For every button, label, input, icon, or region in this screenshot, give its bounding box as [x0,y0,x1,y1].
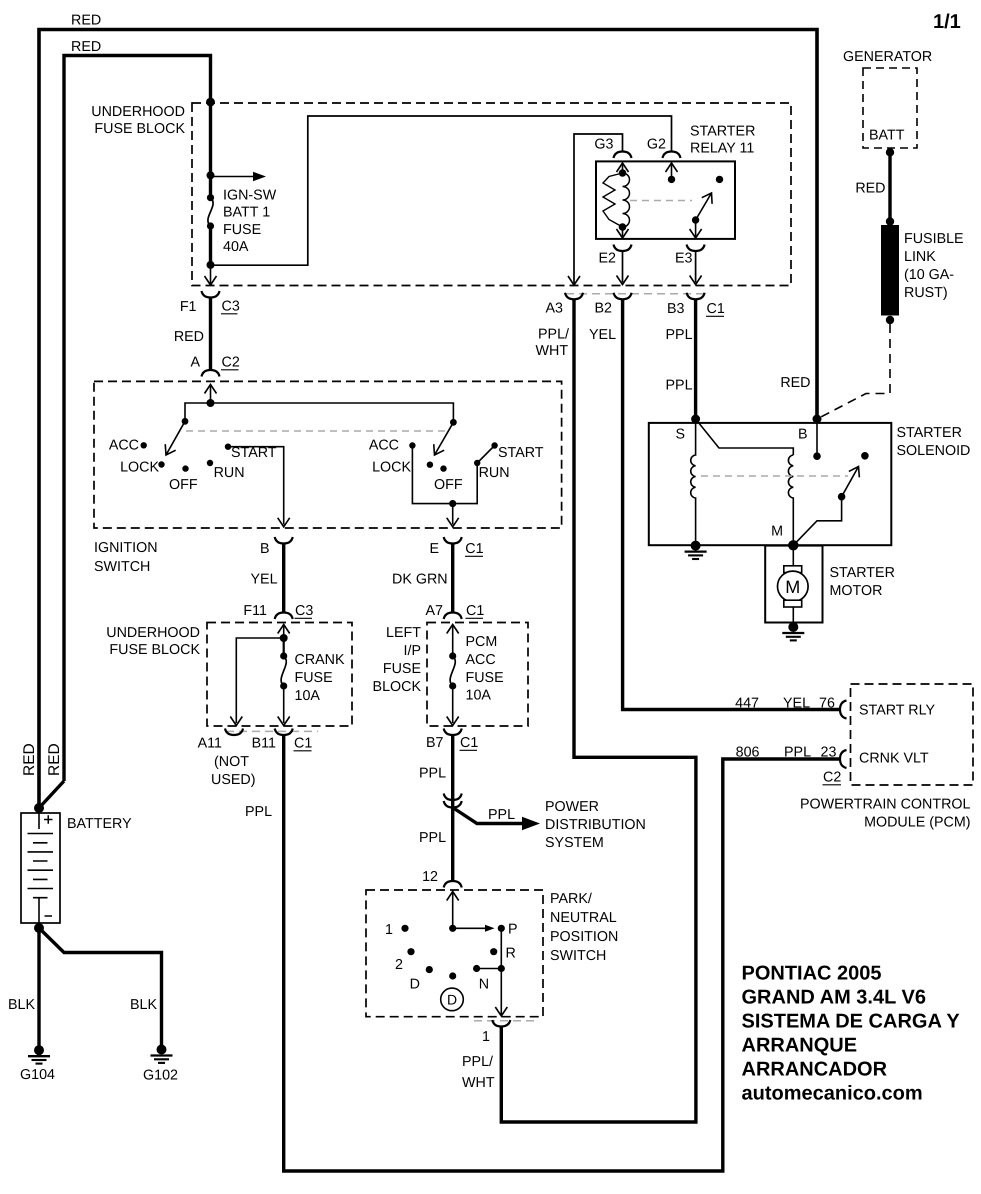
junction node crank fuse [280,634,288,642]
connector F11 C3 [275,613,293,620]
wire left START to B [228,447,290,527]
svg-text:RED: RED [21,743,38,776]
label A7 [426,603,444,619]
svg-text:POSITION: POSITION [550,929,618,945]
page number 1/1 [933,11,961,33]
label G104 [20,1067,55,1083]
svg-text:SYSTEM: SYSTEM [545,835,604,851]
PNP contact R [490,948,497,955]
svg-text:STARTER: STARTER [830,565,895,581]
label CRNK VLT [859,751,929,767]
svg-text:A7: A7 [426,603,444,619]
svg-text:PONTIAC 2005: PONTIAC 2005 [742,963,882,985]
svg-text:PPL: PPL [666,327,693,343]
svg-text:1/1: 1/1 [933,11,961,33]
label FUSIBLE LINK (10 GA- RUST) [904,231,964,301]
battery [21,813,60,923]
svg-text:CRANK: CRANK [295,652,346,668]
label RED at solenoid B [780,375,810,391]
label PPL lower [419,830,446,846]
connector E C1 [444,537,462,544]
svg-text:STARTER: STARTER [897,425,962,441]
svg-text:D: D [447,992,457,1008]
svg-text:FUSIBLE: FUSIBLE [904,231,964,247]
label PPL (B3 upper) [666,327,693,343]
circled D indicator [441,988,464,1011]
label 12 [422,869,438,885]
connector A11 [225,729,243,736]
wire RED F1 to A [209,298,212,370]
label E3 [675,251,693,267]
wire RED second feed (battery to underhood fuse block) [39,56,211,809]
label C1 underlined [465,541,484,557]
label YEL [251,572,278,588]
solenoid switch contact [861,452,869,460]
svg-text:FUSE: FUSE [223,222,261,238]
wire BLK battery to G104 [37,928,40,1046]
svg-text:MODULE (PCM): MODULE (PCM) [864,815,970,831]
svg-text:1: 1 [385,922,393,938]
PNP wiper junction [449,925,456,932]
svg-text:C1: C1 [466,603,484,619]
branch arrow to other circuits [211,172,267,182]
svg-text:C3: C3 [295,603,313,619]
label M [771,524,783,540]
svg-text:USED): USED) [211,772,255,788]
wire B YEL to F11 [282,544,285,613]
label CRANK FUSE 10A [295,652,346,704]
label B7 [426,735,444,751]
svg-text:NEUTRAL: NEUTRAL [550,910,617,926]
fuse IGN-SW BATT 1 FUSE 40A [207,194,214,230]
PNP wiper arrow to P [453,925,495,932]
wire B7 PPL down through inline connector [451,735,454,881]
connector F1 C3 [202,291,220,298]
svg-text:DISTRIBUTION: DISTRIBUTION [545,817,646,833]
svg-text:A11: A11 [198,736,222,752]
wire B11 PPL to PCM CRNK VLT (806) [284,735,840,1171]
ground starter motor [782,622,804,640]
wire B2 YEL to PCM START RLY (447) [623,299,840,709]
starter motor box [765,546,822,623]
label B [798,427,808,443]
solenoid hold winding (left coil) [691,419,696,545]
junction node fuse output [207,261,215,269]
svg-text:LOCK: LOCK [372,460,411,476]
label C2 underlined [221,355,240,371]
label B2 [595,301,613,317]
label 447 [735,696,759,712]
ignition switch dashed box [94,381,562,528]
svg-text:OFF: OFF [434,477,463,493]
branch wire to A11 not used [230,638,283,726]
svg-text:POWER: POWER [545,799,599,815]
label RED second wire [71,39,101,55]
fusible link (10 GA-RUST) [881,225,899,316]
PNP contact N [473,965,480,972]
svg-text:PCM: PCM [466,634,498,650]
label B [260,541,270,557]
connector B7 C1 [444,729,462,736]
svg-text:C1: C1 [460,735,478,751]
svg-text:G2: G2 [647,137,666,153]
svg-text:B2: B2 [595,301,613,317]
label PPL at branch [488,807,515,823]
svg-text:R: R [506,946,516,962]
solenoid switch arm [838,464,864,501]
label STARTER MOTOR [830,565,895,599]
connector A C2 [202,370,220,377]
wire A3 PPL/WHT to park/neutral switch pin 1 [501,299,696,1122]
svg-text:M: M [771,524,783,540]
svg-text:RUN: RUN [479,465,510,481]
label RED [174,329,204,345]
svg-text:B11: B11 [252,736,276,752]
node fusible link top [886,217,894,225]
label S [676,427,686,443]
svg-text:FUSE: FUSE [466,670,504,686]
connector E3 [687,245,705,252]
label PCM ACC FUSE 10A [466,634,504,704]
label LEFT I/P FUSE BLOCK [373,625,422,695]
solenoid switch arm to M terminal [793,497,841,546]
label YEL [589,327,616,343]
underhood fuse block (crank fuse) dashed box [207,623,352,727]
PNP contact 2 [407,948,414,955]
svg-text:E: E [429,541,439,557]
wire right ACC RUN START to E [412,446,494,527]
connector B11 C1 [275,729,293,736]
svg-text:806: 806 [736,745,760,761]
PNP contact P [498,925,505,932]
connector PCM pin 23 [840,750,847,768]
label DK GRN [392,572,448,588]
svg-text:START RLY: START RLY [859,703,935,719]
label P [508,922,518,938]
svg-text:PPL/: PPL/ [538,327,569,343]
park/neutral position switch dashed box [366,890,543,1017]
label PPL [784,745,811,761]
ground G102 [151,1045,173,1063]
node battery positive [34,803,44,813]
svg-text:BLK: BLK [130,997,157,1013]
svg-text:447: 447 [735,696,759,712]
relay pin G3 arrow [617,163,629,173]
svg-text:BATT: BATT [869,128,905,144]
label 76 [819,696,835,712]
svg-text:RUST): RUST) [904,285,948,301]
label POWERTRAIN CONTROL MODULE (PCM) [800,797,971,831]
connector row C1 dashed joining line lower fuse block [226,730,318,732]
PNP contact D [426,966,433,973]
node solenoid S terminal [691,415,700,424]
connector G3 [614,152,632,159]
label YEL [783,696,810,712]
svg-text:automecanico.com: automecanico.com [742,1083,923,1105]
starter solenoid box [649,423,892,545]
label C3 underlined [221,299,240,315]
label F11 [243,603,267,619]
svg-text:C1: C1 [707,301,725,317]
connector B [275,537,293,544]
label STARTER SOLENOID [897,425,971,459]
ignition internal bus [185,399,453,422]
relay coil output arrow to E2 [617,227,629,238]
svg-text:FUSE BLOCK: FUSE BLOCK [109,642,200,658]
PNP wire P-N to output 1 [477,928,508,1016]
label B3 [667,301,685,317]
svg-text:RED: RED [71,13,101,29]
svg-text:WHT: WHT [462,1075,495,1091]
title block [742,963,961,1105]
svg-text:D: D [410,977,420,993]
svg-text:G102: G102 [143,1068,178,1084]
solenoid pull-in winding (right coil) [788,455,793,545]
svg-text:WHT: WHT [536,343,569,359]
wire E2 to B2 [617,251,629,285]
relay switch arm [692,176,723,224]
svg-text:RED: RED [855,181,885,197]
svg-text:FUSE: FUSE [383,661,421,677]
wire relay coil feed G3 from A3 [568,134,623,285]
label BATT [869,128,905,144]
svg-text:I/P: I/P [404,643,421,659]
label C1 underlined [294,736,313,752]
label G102 [143,1068,178,1084]
node solenoid M terminal [788,540,798,550]
PCM ACC fuse entry arrow [447,625,459,657]
inline connector [444,794,462,808]
PNP entry arrow pin 12 [447,892,459,929]
svg-text:YEL: YEL [589,327,616,343]
svg-text:UNDERHOOD: UNDERHOOD [106,625,200,641]
svg-text:10A: 10A [295,688,321,704]
svg-text:M: M [785,577,800,597]
svg-text:ACC: ACC [109,438,139,454]
svg-text:IGN-SW: IGN-SW [223,188,277,204]
svg-text:PPL: PPL [488,807,515,823]
svg-text:40A: 40A [223,239,249,255]
node generator BATT terminal [886,148,894,156]
svg-text:1: 1 [482,1029,490,1045]
wire BLK battery to G102 [39,928,162,1045]
connector B2 [614,293,632,300]
label 2 [395,957,403,973]
wire fuse output [209,226,212,265]
wire RED generator to fusible link [888,152,891,221]
label (NOT USED) [211,754,255,788]
label C3 underlined [295,603,314,619]
wire M to starter motor [792,545,794,566]
label START RLY [859,703,935,719]
svg-text:G104: G104 [20,1067,55,1083]
labels right ACC LOCK OFF RUN START [369,438,544,494]
label PPL [419,766,446,782]
label PPL (B3 lower) [666,378,693,394]
left I/P fuse block dashed box [427,623,528,727]
svg-text:ACC: ACC [369,438,399,454]
solenoid internal ground [685,541,707,559]
connector G2 [663,152,681,159]
label C1 underlined [706,301,725,317]
svg-text:BATT 1: BATT 1 [223,205,270,221]
svg-text:UNDERHOOD: UNDERHOOD [91,104,185,120]
ignition feed entry arrow [205,385,217,404]
connector E2 [614,245,632,252]
svg-text:10A: 10A [466,688,492,704]
svg-text:B: B [260,541,270,557]
svg-text:SISTEMA DE CARGA Y: SISTEMA DE CARGA Y [742,1011,961,1033]
svg-text:MOTOR: MOTOR [830,583,883,599]
ignition switch arm left [161,418,189,458]
relay pin G2 arrow and terminal [666,163,678,183]
svg-text:CRNK VLT: CRNK VLT [859,751,929,767]
underhood fuse block (top) dashed box [192,103,791,286]
svg-text:SWITCH: SWITCH [94,559,150,575]
label IGN-SW BATT 1 FUSE 40A [223,188,277,256]
label C2 underlined [823,770,842,786]
label POWER DISTRIBUTION SYSTEM [545,799,646,851]
relay mechanical linkage [630,200,692,202]
svg-text:ARRANCADOR: ARRANCADOR [742,1059,888,1081]
svg-text:FUSE BLOCK: FUSE BLOCK [94,121,185,137]
svg-text:G3: G3 [594,137,613,153]
svg-text:RED: RED [71,39,101,55]
svg-text:SOLENOID: SOLENOID [897,443,971,459]
label D [410,977,420,993]
solenoid pull-in winding feed [696,419,794,455]
wire fuse output to relay G2 [211,116,672,265]
svg-text:12: 12 [422,869,438,885]
label RED generator wire [855,181,885,197]
label A11 [198,736,222,752]
label BLK left [8,997,35,1013]
starter relay 11 box [596,161,735,239]
label N [479,977,489,993]
svg-text:2: 2 [395,957,403,973]
svg-text:LINK: LINK [904,249,936,265]
svg-text:N: N [479,977,489,993]
svg-text:(NOT: (NOT [214,754,249,770]
svg-text:BLOCK: BLOCK [373,679,422,695]
label 806 [736,745,760,761]
label G3 [594,137,613,153]
label PPL/ WHT [462,1054,495,1091]
svg-text:ACC: ACC [466,652,496,668]
svg-text:PARK/: PARK/ [550,891,592,907]
svg-text:YEL: YEL [251,572,278,588]
svg-text:PPL: PPL [666,378,693,394]
svg-text:A3: A3 [546,301,564,317]
svg-text:F1: F1 [180,299,197,315]
wire E3 to B3 [690,251,702,285]
svg-text:RED: RED [46,743,63,776]
label UNDERHOOD FUSE BLOCK [91,104,185,137]
label PPL [245,804,272,820]
svg-text:OFF: OFF [169,477,198,493]
generator dashed box [863,68,917,148]
label BLK right [130,997,157,1013]
label C1 underlined [466,603,485,619]
node solenoid B terminal [813,415,822,424]
svg-text:E3: E3 [675,251,693,267]
ignition switch arm right [429,419,457,458]
wire motor to ground [792,607,794,627]
svg-text:(10 GA-: (10 GA- [904,267,954,283]
label C1 underlined [460,735,479,751]
connector 1 PNP output [492,1020,510,1027]
svg-text:A: A [190,355,200,371]
wire B3 PPL to solenoid S [694,299,697,419]
label RED top wire [71,13,101,29]
label A3 [546,301,564,317]
label B11 [252,736,276,752]
svg-text:DK GRN: DK GRN [392,572,448,588]
svg-text:C1: C1 [294,736,312,752]
PNP contact 1 [401,925,408,932]
svg-text:ARRANQUE: ARRANQUE [742,1035,858,1057]
ignition mechanical linkage [186,430,445,432]
label F1 [180,299,197,315]
connector A7 C1 [444,613,462,620]
svg-text:PPL/: PPL/ [462,1054,493,1070]
svg-text:B: B [798,427,808,443]
svg-text:BATTERY: BATTERY [67,816,132,832]
label PARK/ NEUTRAL POSITION SWITCH [550,891,618,964]
solenoid mechanical linkage [701,475,848,477]
connector B3 [687,293,705,300]
svg-text:SWITCH: SWITCH [550,948,606,964]
svg-text:STARTER: STARTER [690,124,755,140]
label IGNITION SWITCH [94,540,158,575]
svg-text:C1: C1 [465,541,483,557]
label 1 [482,1029,490,1045]
connector 12 [444,881,462,888]
starter motor M1 [778,566,809,607]
svg-text:PPL: PPL [419,766,446,782]
svg-text:GENERATOR: GENERATOR [843,49,932,65]
label STARTER RELAY 11 [690,124,755,157]
svg-text:S: S [676,427,686,443]
wire E DK GRN to A7 [451,544,454,613]
svg-text:PPL: PPL [419,830,446,846]
svg-text:RED: RED [780,375,810,391]
label PPL/WHT [536,327,570,360]
connector A3 [565,293,583,300]
junction node at fuse block top edge [206,98,215,107]
connector row C1 dashed joining line [566,293,704,295]
svg-text:RELAY 11: RELAY 11 [690,141,754,157]
label UNDERHOOD FUSE BLOCK [106,625,200,658]
junction node feed branch [207,171,215,179]
svg-text:C3: C3 [222,299,240,315]
fuse PCM ACC FUSE 10A [447,652,459,725]
svg-text:C2: C2 [222,355,240,371]
label R [506,946,516,962]
label GENERATOR [843,49,932,65]
crank fuse entry arrow [278,625,290,639]
solenoid B internal pin [813,419,821,460]
label 23 [821,745,837,761]
svg-text:C2: C2 [823,770,841,786]
ignition right contacts ACC LOCK OFF RUN START [409,442,498,472]
label RED vertical second wire (rotated) [46,743,63,776]
PNP contact middle [449,972,456,979]
svg-text:YEL: YEL [783,696,810,712]
svg-text:RUN: RUN [214,465,245,481]
relay switch output arrow to E3 [690,220,702,238]
label BATTERY [67,816,132,832]
